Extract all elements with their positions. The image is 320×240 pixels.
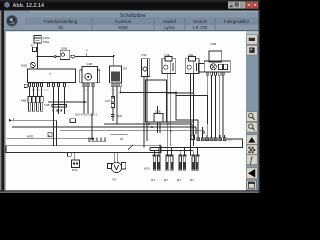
- svg-text:Abb. 12.2.14: Abb. 12.2.14: [13, 3, 44, 9]
- svg-text:L4E: L4E: [188, 53, 193, 57]
- svg-text:Modell: Modell: [163, 19, 176, 24]
- svg-text:C0?: C0?: [105, 99, 111, 103]
- svg-text:D10 4 D10 1 E10 2: D10 4 D10 1 E10 2: [75, 113, 98, 117]
- svg-text:M10: M10: [72, 168, 78, 172]
- svg-text:J57: J57: [123, 67, 128, 71]
- svg-text:1.9 JTD: 1.9 JTD: [192, 25, 207, 30]
- svg-text:2 4 6: 2 4 6: [84, 90, 90, 92]
- svg-text:Lybra: Lybra: [164, 25, 175, 30]
- svg-text:C0B: C0B: [44, 103, 50, 107]
- svg-text:E7: E7: [151, 178, 155, 182]
- svg-text:C2B: C2B: [155, 110, 161, 114]
- svg-text:Fahrgestellnr: Fahrgestellnr: [224, 19, 250, 24]
- svg-text:E7: E7: [177, 178, 181, 182]
- svg-text:T30a: T30a: [42, 40, 49, 44]
- svg-text:Funktion: Funktion: [115, 19, 132, 24]
- svg-text:Funktionsumfang: Funktionsumfang: [44, 19, 78, 24]
- svg-text:MTE: MTE: [27, 135, 33, 139]
- svg-text:Schaltpläne: Schaltpläne: [120, 13, 146, 19]
- svg-text:D0B: D0B: [61, 46, 67, 50]
- svg-text:L3E: L3E: [165, 53, 170, 57]
- svg-text:1 3 5 7 30 87 15 50: 1 3 5 7 30 87 15 50: [30, 90, 50, 92]
- svg-text:N20: N20: [144, 167, 150, 171]
- svg-text:M1E: M1E: [21, 63, 27, 67]
- svg-text:30: 30: [58, 25, 63, 30]
- svg-text:B12: B12: [118, 114, 123, 118]
- svg-text:E7: E7: [164, 178, 168, 182]
- svg-text:C1B: C1B: [86, 62, 92, 66]
- svg-text:P31: P31: [142, 53, 148, 57]
- svg-text:A4B: A4B: [21, 99, 27, 103]
- svg-text:Pb: Pb: [120, 137, 124, 141]
- svg-text:B1: B1: [229, 138, 233, 142]
- svg-text:P4B: P4B: [211, 42, 217, 46]
- svg-text:M7: M7: [113, 178, 117, 182]
- svg-text:Version: Version: [193, 19, 208, 24]
- svg-text:E7: E7: [190, 178, 194, 182]
- svg-text:5030: 5030: [118, 25, 128, 30]
